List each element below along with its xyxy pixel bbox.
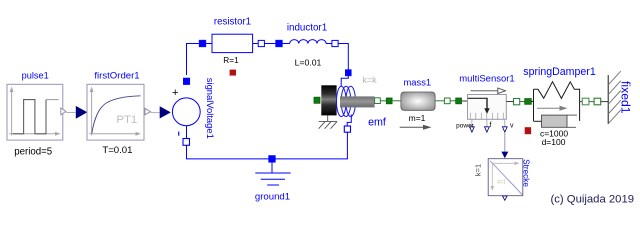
wire to inductor coil — [282, 43, 289, 45]
block Strecke — [473, 159, 530, 196]
svg-text:fixed1: fixed1 — [619, 81, 633, 114]
svg-text:period=5: period=5 — [14, 146, 52, 157]
flange multiSensor hollow green — [444, 98, 450, 104]
input port firstOrder1.u — [76, 106, 88, 119]
svg-text:emf: emf — [368, 117, 386, 129]
wire emf.flange to mass1.flange_a — [380, 100, 386, 102]
pin inductor1.n — [332, 40, 338, 46]
pin emf.n — [344, 126, 350, 132]
wire flange_a to mass body — [392, 100, 401, 102]
svg-text:T=0.01: T=0.01 — [102, 145, 132, 156]
pin signalVoltage1.n — [183, 139, 190, 146]
flange springDamper1.flange_b hollow green — [582, 98, 589, 105]
svg-text:d=100: d=100 — [542, 137, 566, 147]
wire inductor1.n to emf.p — [338, 44, 348, 71]
flange emf.flange (hollow green) — [375, 98, 381, 104]
svg-text:Strecke: Strecke — [521, 159, 530, 187]
support flange green square — [314, 97, 320, 103]
svg-text:ground1: ground1 — [255, 191, 290, 202]
input port Strecke.u — [501, 152, 508, 159]
svg-text:signalVoltage1: signalVoltage1 — [205, 78, 216, 139]
flange multiSensor1.flange_a filled green — [456, 98, 462, 104]
wire stub p pin to coil — [341, 76, 348, 87]
svg-text:+: + — [172, 87, 178, 99]
svg-text:m=1: m=1 — [409, 113, 426, 123]
wire springDamper1.flange_b — [580, 101, 583, 103]
wire pulse1.y to firstOrder1.u — [66, 112, 76, 114]
svg-text:v: v — [510, 123, 514, 130]
svg-text:power: power — [456, 122, 475, 129]
heatPort indicator resistor1 — [230, 70, 236, 76]
shaft — [340, 96, 375, 107]
wire firstOrder1.y to signalVoltage1.v — [151, 112, 160, 114]
wire resistor1 to pin n — [253, 43, 259, 45]
wire node to resistor1 — [206, 43, 212, 45]
input port signalVoltage1.v — [160, 106, 171, 118]
output multiSensor1.power — [456, 119, 475, 132]
flange fixed1.flange hollow green — [594, 98, 601, 105]
voltage source signalVoltage1 — [172, 78, 216, 139]
mass mass1 — [400, 77, 435, 130]
pin inductor1.p — [276, 40, 283, 47]
support hatching — [319, 115, 338, 128]
ground ground1 — [255, 159, 291, 202]
wire mass1.flange_b to multiSensor1.flange_a — [435, 100, 444, 102]
coils — [337, 86, 347, 116]
wire multiSensor1.v to Strecke.u — [504, 132, 506, 152]
output port firstOrder1.y — [145, 108, 151, 114]
flange springDamper1.flange_a filled green — [525, 99, 532, 105]
wire fixed1.flange to wall — [601, 101, 609, 103]
svg-text:pulse1: pulse1 — [22, 71, 49, 81]
pin signalVoltage1.p — [183, 78, 190, 85]
wire to springDamper1.flange_a — [520, 101, 525, 103]
svg-text:k=k: k=k — [362, 75, 377, 85]
wire resistor1.n to inductor1.p — [264, 43, 275, 45]
svg-text:f: f — [490, 122, 492, 129]
svg-text:R=1: R=1 — [223, 55, 239, 65]
output port Strecke.y — [503, 196, 508, 200]
emf — [314, 75, 386, 129]
svg-text:springDamper1: springDamper1 — [523, 66, 596, 78]
block firstOrder1 — [87, 70, 144, 156]
svg-text:multiSensor1: multiSensor1 — [459, 74, 514, 85]
flange multiSensor1.flange_b hollow green — [514, 99, 520, 105]
svg-text:inductor1: inductor1 — [287, 23, 327, 34]
wire flange to sensor body — [461, 100, 467, 102]
flange mass1.flange_a (filled green) — [386, 98, 392, 104]
fixed fixed1 — [608, 71, 632, 124]
output multiSensor1.f — [485, 119, 492, 132]
inductor L1 (inductor1) — [287, 23, 327, 68]
pin emf.p — [345, 70, 351, 76]
output port pulse1.y — [61, 108, 66, 115]
wire emf.n to bottom bus to signalVoltage1.n — [187, 126, 348, 159]
svg-text:mass1: mass1 — [403, 77, 431, 88]
node resistor1.p — [199, 40, 206, 47]
svg-text:k=1: k=1 — [498, 179, 506, 185]
sensor multiSensor1 — [459, 74, 514, 120]
svg-text:L=0.01: L=0.01 — [295, 58, 322, 68]
heatPort indicator springDamper1 — [525, 127, 531, 134]
svg-text:k=1: k=1 — [473, 164, 482, 176]
wire stub coil to n pin — [347, 115, 351, 127]
wire between flanges — [450, 100, 456, 102]
spring-damper springDamper1 — [523, 66, 596, 147]
svg-text:PT1: PT1 — [116, 114, 137, 126]
pin resistor1.n — [258, 40, 264, 46]
svg-text:firstOrder1: firstOrder1 — [94, 70, 139, 81]
wire multiSensor1.flange_b to springDamper1 — [506, 101, 513, 103]
wire signalVoltage1.p to resistor1.p — [187, 44, 201, 76]
resistor R1 (resistor1) — [212, 17, 253, 66]
wire between flanges — [589, 101, 594, 103]
output multiSensor1.v — [502, 119, 514, 132]
wire coil to inductor1.n — [326, 43, 332, 45]
svg-text:resistor1: resistor1 — [214, 17, 251, 28]
block pulse1 — [7, 71, 63, 158]
svg-text:(c) Quijada 2019: (c) Quijada 2019 — [551, 194, 635, 206]
node ground junction — [269, 156, 276, 163]
